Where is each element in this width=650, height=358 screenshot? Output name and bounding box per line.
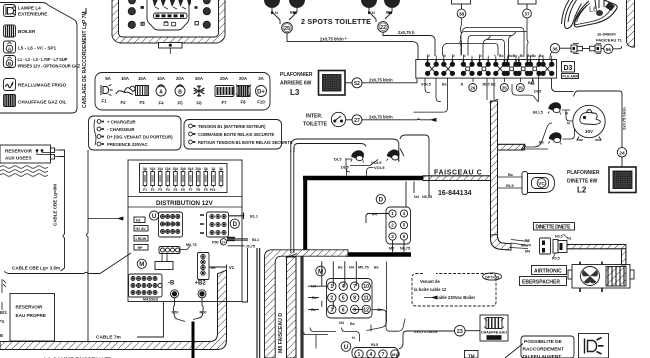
terminal cluster 5 (494, 56, 507, 76)
svg-text:4: 4 (342, 284, 345, 290)
svg-text:RL5: RL5 (506, 183, 514, 188)
svg-text:16-844134: 16-844134 (438, 190, 472, 197)
svg-text:N: N (427, 54, 430, 58)
terminal cluster 6 (505, 56, 518, 76)
wire down to 24 (575, 91, 622, 148)
tension box (184, 120, 282, 150)
svg-text:TM: TM (468, 354, 475, 358)
svg-text:5: 5 (342, 296, 345, 302)
svg-text:RESERVOIR: RESERVOIR (16, 305, 44, 310)
connector pair A (571, 44, 583, 54)
legend text A (18, 46, 56, 51)
svg-text:M0,75: M0,75 (358, 266, 369, 270)
spot lamp 2b (385, 0, 400, 8)
fuse icon F2 hand/pump (116, 86, 135, 94)
svg-text:ARRIERE 6W: ARRIERE 6W (280, 81, 312, 87)
svg-text:Bc: Bc (491, 83, 496, 87)
terminal +B2 (198, 290, 206, 298)
svg-text:L6: L6 (589, 5, 597, 14)
svg-text:M: M (318, 269, 323, 276)
svg-text:F10: F10 (210, 188, 216, 192)
legend text CHAUFFAGE GAZ OIL (18, 100, 67, 105)
possibilite box (521, 336, 574, 358)
reservoir waves (0, 166, 48, 177)
svg-text:F8: F8 (196, 188, 200, 192)
circle 25c (516, 84, 524, 92)
terminal strip box (416, 60, 557, 79)
svg-text:2x0,75 blc/n *: 2x0,75 blc/n * (320, 36, 347, 41)
circle 25 (282, 22, 293, 33)
venant texts (414, 279, 475, 300)
svg-text:+ CHARGEUR: + CHARGEUR (107, 120, 136, 125)
svg-text:2x0,75 b: 2x0,75 b (398, 30, 415, 35)
VC wires (498, 177, 522, 188)
svg-text:B/3: B/3 (0, 310, 7, 315)
AIRTRONIC box (532, 266, 567, 275)
svg-text:L1 - L2 - L3 - L70F - L7 SUP: L1 - L2 - L3 - L70F - L7 SUP (18, 57, 68, 62)
svg-text:52: 52 (354, 81, 360, 87)
panel button low-right (203, 21, 210, 28)
terminal cluster 8 (528, 56, 541, 76)
svg-text:PRISES 12V - OPTION FOUR GAZ: PRISES 12V - OPTION FOUR GAZ (18, 64, 81, 69)
panel button mid-left (128, 8, 135, 15)
faisceau C thick bar lower (346, 252, 411, 257)
chargeur box (89, 116, 182, 150)
svg-text:PLAFONNIER: PLAFONNIER (280, 72, 313, 78)
toggle wires to bar (345, 159, 378, 176)
terminal cluster 3 (461, 56, 474, 76)
circle 26 (469, 84, 477, 92)
svg-text:F1: F1 (143, 188, 147, 192)
connector pair B (590, 44, 602, 54)
wires B terminals down (173, 298, 203, 322)
terminal cluster 1 (425, 56, 438, 76)
masses grid (129, 274, 163, 297)
circle U (149, 211, 158, 220)
panel button mid-right (203, 8, 210, 15)
svg-text:4: 4 (370, 352, 373, 358)
svg-text:11: 11 (363, 296, 369, 302)
svg-text:20A: 20A (239, 76, 248, 81)
svg-text:DU FEU AUVENT: DU FEU AUVENT (523, 354, 562, 358)
svg-text:Bc: Bc (386, 11, 391, 15)
svg-text:BOILER: BOILER (488, 336, 502, 340)
hatched band toggles vertical (286, 254, 298, 358)
wire branch to H1 (88, 217, 123, 220)
wire 24 to L2 (621, 157, 623, 167)
legend icon frigo (4, 79, 16, 91)
fuse icon F8 radiator dark (236, 85, 251, 97)
svg-text:Bc: Bc (499, 54, 504, 58)
svg-text:30A: 30A (195, 76, 204, 81)
fuse icon F5 bulb B (175, 85, 185, 96)
svg-text:LRDW: LRDW (136, 237, 147, 241)
gauge crown (151, 0, 191, 7)
svg-text:5A: 5A (105, 76, 111, 81)
svg-text:H1: H1 (136, 219, 141, 223)
svg-text:N: N (461, 83, 464, 87)
svg-text:DL5: DL5 (334, 157, 342, 162)
fuse icon F1 lamp (101, 85, 113, 96)
svg-text:REALLUMAGE FRIGO: REALLUMAGE FRIGO (18, 83, 67, 88)
svg-text:F1: F1 (101, 99, 107, 104)
svg-text:PLE ARR: PLE ARR (563, 75, 579, 79)
svg-text:BOILER: BOILER (18, 29, 36, 34)
svg-text:M: M (139, 262, 144, 268)
boiler legend icon (4, 25, 16, 37)
toggle DL5 (351, 151, 364, 163)
svg-text:30V: 30V (585, 129, 594, 134)
hatched band to heater (567, 244, 626, 248)
lamp L4 legend icon (4, 5, 17, 17)
circle M mid (316, 266, 326, 276)
connector U grid (159, 212, 183, 237)
svg-text:RESERVOIR: RESERVOIR (5, 149, 33, 154)
svg-text:PLAFONNIER: PLAFONNIER (567, 170, 600, 176)
svg-text:HP: HP (138, 246, 144, 250)
svg-text:D3: D3 (564, 65, 573, 72)
svg-text:Bc: Bc (311, 308, 316, 312)
circle M (137, 259, 146, 268)
U bottom labels (352, 336, 399, 357)
svg-text:VOL5: VOL5 (421, 83, 431, 87)
svg-text:22: 22 (380, 25, 386, 31)
wire chargeur down (87, 150, 89, 345)
spot pair1 wires (272, 8, 297, 24)
panel small glyphs (141, 6, 144, 9)
wires toggles to gauge (562, 110, 575, 139)
chargeur connector pins (94, 120, 104, 146)
svg-text:M0,70: M0,70 (521, 244, 531, 248)
circle 37 (526, 4, 528, 10)
fuse icon F6 snowflake (194, 85, 205, 97)
svg-text:-B: -B (168, 281, 175, 287)
svg-text:D: D (233, 222, 238, 228)
svg-text:EXTERIEURE: EXTERIEURE (18, 12, 47, 17)
svg-text:N0,75: N0,75 (422, 195, 432, 199)
reservoir aux usees box (0, 145, 51, 163)
spot lamp 2a (362, 0, 377, 8)
legend border box (0, 3, 77, 114)
svg-text:66: 66 (606, 47, 612, 53)
wire fan 38/37 to strip (443, 18, 529, 60)
svg-text:RACCORDEMENT: RACCORDEMENT (523, 347, 564, 353)
svg-text:POSSIBILITE DE: POSSIBILITE DE (524, 339, 563, 345)
toggle bus path (291, 135, 429, 198)
svg-text:RL5: RL5 (483, 83, 490, 87)
svg-text:B: B (178, 89, 182, 95)
svg-text:7: 7 (353, 284, 356, 290)
plafonnier L3 box (319, 71, 346, 96)
svg-text:F6: F6 (196, 101, 202, 106)
header band (128, 197, 242, 208)
svg-text:BL1: BL1 (252, 238, 259, 242)
hatched band right vertical (490, 99, 499, 235)
spot lamp 1a (265, 0, 280, 8)
toggle BLL5 (548, 103, 561, 115)
circle D (230, 219, 239, 228)
band elbow to connector (491, 235, 512, 251)
svg-text:PRESENCE 230VAC: PRESENCE 230VAC (107, 142, 148, 147)
svg-text:Bc: Bc (520, 54, 525, 58)
svg-text:Bc: Bc (374, 266, 379, 270)
panel button top-left (129, 0, 136, 4)
wire J0,75 (228, 246, 249, 302)
wires B1.1 top (229, 213, 244, 219)
svg-text:25: 25 (502, 85, 507, 90)
D block (386, 207, 411, 244)
svg-text:N: N (372, 11, 375, 15)
DINETTE label box (534, 223, 575, 231)
svg-text:D+ (SIG VENANT DU PORTEUR): D+ (SIG VENANT DU PORTEUR) (107, 135, 173, 140)
svg-text:Bc: Bc (508, 172, 514, 177)
svg-text:TENSION B1 (BATTERIE MOTEUR): TENSION B1 (BATTERIE MOTEUR) (198, 124, 266, 129)
legend icon A (4, 41, 16, 53)
svg-text:DINETTE DNETE: DINETTE DNETE (536, 225, 572, 231)
svg-text:10: 10 (363, 284, 369, 290)
svg-text:D+: D+ (257, 90, 265, 96)
svg-text:EBERSPACHER: EBERSPACHER (522, 280, 560, 286)
distribution outer box (128, 160, 242, 302)
svg-text:N50: N50 (172, 311, 179, 315)
terminal clusters (425, 56, 554, 76)
spot lamp 1b (290, 0, 305, 8)
heater unit (568, 262, 634, 293)
tension text lines (198, 124, 293, 145)
svg-text:27: 27 (354, 118, 360, 124)
4-pin row connector (159, 246, 190, 254)
terminal cluster 2 (442, 56, 455, 76)
circle 24 (617, 148, 626, 157)
plafonnier L3 text (280, 72, 313, 97)
pin labels above strip (427, 54, 544, 58)
svg-text:M0,75: M0,75 (186, 243, 197, 247)
eau propre probe marks (2, 279, 6, 310)
svg-text:Bc: Bc (539, 140, 545, 145)
svg-text:N: N (567, 121, 570, 126)
band branch right (498, 144, 526, 150)
svg-text:7: 7 (382, 352, 385, 358)
svg-text:VOL5: VOL5 (374, 165, 385, 170)
svg-text:LAMPE L4: LAMPE L4 (18, 6, 41, 11)
svg-text:F9: F9 (204, 188, 208, 192)
M wires (308, 261, 364, 309)
faisceau C thick vertical (303, 178, 307, 255)
svg-text:8: 8 (353, 296, 356, 302)
svg-text:B: B (0, 333, 3, 338)
svg-text:F5: F5 (177, 101, 183, 106)
svg-text:*3: *3 (0, 319, 5, 324)
svg-text:N: N (275, 11, 278, 15)
cable cbe 3.5m wire (4, 253, 131, 274)
svg-text:FAISCEAU TL: FAISCEAU TL (596, 38, 623, 43)
wire M to U bottom (310, 262, 387, 342)
svg-text:N: N (443, 54, 446, 58)
svg-text:CHAUFFAGE GAZ OIL: CHAUFFAGE GAZ OIL (18, 100, 67, 105)
wire reservoir down (59, 150, 65, 271)
svg-text:N0,5: N0,5 (555, 235, 563, 239)
legend icon B (4, 56, 16, 68)
terminal -B (171, 290, 179, 298)
control panel hatched frame (112, 0, 225, 43)
svg-text:F10: F10 (257, 100, 265, 105)
svg-text:23: 23 (457, 329, 463, 335)
svg-text:D: D (379, 198, 384, 204)
svg-text:INTER.: INTER. (306, 114, 323, 120)
toggle Bc (548, 133, 561, 145)
svg-text:L5 - L6 - VC - SP1: L5 - L6 - VC - SP1 (18, 46, 56, 51)
svg-text:24: 24 (619, 151, 625, 157)
wire to band top (487, 78, 494, 100)
spot pair2 wires (369, 8, 392, 22)
panel centre display module (147, 0, 189, 30)
EBERSPACHER box (520, 277, 567, 286)
inner fuse name labels (143, 188, 215, 192)
svg-text:Bc: Bc (338, 266, 343, 270)
dark cable pair x258 (257, 248, 260, 358)
svg-text:AIRTRONIC: AIRTRONIC (534, 269, 562, 275)
svg-text:BcBc: BcBc (527, 54, 536, 58)
svg-text:3A: 3A (258, 76, 264, 81)
thick B cable (192, 322, 195, 358)
venant arrow (424, 296, 437, 299)
heater connector B (553, 240, 567, 254)
inner fuse amp labels (143, 167, 224, 171)
svg-text:10A: 10A (121, 76, 130, 81)
reservoir eau propre box (10, 294, 55, 342)
fuse icon F4 bulb A (156, 85, 166, 96)
svg-text:26: 26 (470, 85, 475, 90)
svg-text:DL5: DL5 (534, 90, 541, 94)
svg-text:TOILETTE: TOILETTE (303, 122, 328, 128)
svg-text:- CHARGEUR: - CHARGEUR (107, 127, 135, 132)
svg-text:BcBc: BcBc (508, 54, 517, 58)
U block bottom (352, 348, 399, 358)
svg-text:L2: L2 (577, 186, 587, 195)
wall hatched band top right (627, 0, 636, 47)
svg-text:Bc: Bc (442, 83, 447, 87)
svg-text:37: 37 (524, 12, 530, 18)
plafonnier L2 box (609, 167, 636, 193)
circle 22 (378, 22, 389, 33)
svg-text:la boite cable 12: la boite cable 12 (414, 287, 447, 292)
wire 25 (287, 33, 418, 59)
VC component (522, 172, 555, 195)
svg-text:F3: F3 (139, 100, 145, 105)
lamp box 38 (452, 0, 471, 4)
svg-text:10A: 10A (138, 76, 147, 81)
svg-text:CHAUFFE-EAU: CHAUFFE-EAU (481, 331, 507, 335)
svg-text:DINETTE 6W: DINETTE 6W (567, 179, 598, 185)
panel bottom tab (159, 43, 183, 49)
wire 52 (362, 79, 417, 83)
svg-text:F4: F4 (158, 101, 164, 106)
svg-text:Bc: Bc (350, 322, 355, 326)
svg-text:16-848690: 16-848690 (597, 32, 616, 37)
awning lamp L6 (562, 0, 618, 29)
svg-text:J0,75: J0,75 (246, 245, 256, 249)
legend text REALLUMAGE FRIGO (18, 83, 67, 88)
terminal cluster 9 (541, 56, 554, 76)
svg-text:38: 38 (459, 12, 465, 18)
left wires at bottom (304, 333, 328, 349)
svg-text:+B2: +B2 (195, 281, 207, 287)
svg-text:M8 FAISCEAU D: M8 FAISCEAU D (278, 313, 284, 353)
circle 25b (500, 84, 508, 92)
OPTION oval (483, 273, 502, 280)
svg-text:20A: 20A (220, 76, 229, 81)
svg-text:A: A (159, 89, 163, 95)
svg-text:DISTRIBUTION 12V: DISTRIBUTION 12V (156, 200, 214, 207)
inner fuse box (140, 164, 228, 193)
toggle labels (334, 157, 385, 171)
F50 2+ (212, 239, 227, 245)
svg-text:25: 25 (518, 85, 523, 90)
svg-text:N1: N1 (567, 237, 572, 241)
svg-text:CABLE CBE Lg=6M: CABLE CBE Lg=6M (53, 184, 58, 226)
svg-text:2x0,75 blc/w: 2x0,75 blc/w (414, 329, 438, 334)
faisceau C thick bar horizontal top (303, 176, 423, 181)
fuse icon F10 D+ (256, 86, 267, 97)
svg-text:V1: V1 (229, 265, 235, 270)
svg-text:2 SPOTS TOILETTE: 2 SPOTS TOILETTE (301, 17, 371, 26)
D3 box (562, 62, 579, 79)
possibilite pointer (505, 344, 523, 358)
terminal cluster 4 (477, 56, 490, 76)
svg-text:N: N (479, 54, 482, 58)
svg-text:F50: F50 (212, 241, 219, 245)
svg-text:12: 12 (363, 307, 369, 313)
lamp box 37 (518, 0, 536, 4)
svg-text:cable 230Vac Boiler: cable 230Vac Boiler (436, 295, 475, 300)
circle 52 (345, 82, 352, 84)
D labels (372, 195, 432, 251)
svg-text:N4: N4 (525, 239, 530, 243)
connector D grid (200, 212, 229, 237)
wire 27 (362, 118, 436, 121)
panel button low-left (128, 21, 135, 28)
svg-text:VC: VC (538, 181, 545, 186)
svg-text:20A: 20A (176, 76, 185, 81)
TM box (465, 351, 479, 358)
svg-text:DL5: DL5 (341, 165, 349, 170)
fuse panel box (95, 73, 270, 111)
svg-text:M15: M15 (392, 353, 399, 357)
legend text LAMPE L4 EXTERIEURE (18, 6, 47, 17)
svg-text:2x0,75 blc/n: 2x0,75 blc/n (369, 77, 393, 82)
fuse icon F7 coils (215, 86, 234, 97)
wires BL1 (227, 239, 248, 240)
hatched band mid L-shape (265, 250, 349, 358)
hatched band right of bar (423, 176, 492, 181)
svg-text:Venant de: Venant de (420, 279, 440, 284)
legend text BOILER (18, 29, 36, 34)
elbow wires to heater connector (510, 240, 529, 249)
cable 7m wire (137, 302, 164, 337)
wire 22 (383, 32, 435, 56)
svg-text:F8: F8 (240, 100, 246, 105)
svg-text:36: 36 (552, 46, 558, 52)
legend text B (18, 57, 81, 69)
tension connector pins (189, 124, 196, 144)
svg-text:N: N (452, 54, 455, 58)
wire pair toggles down (291, 147, 294, 253)
wire 23 to boiler (465, 330, 480, 332)
svg-text:F3: F3 (158, 188, 162, 192)
circle U bottom (341, 342, 351, 352)
svg-text:F7: F7 (189, 188, 193, 192)
wire 36 to connectors (560, 47, 571, 49)
